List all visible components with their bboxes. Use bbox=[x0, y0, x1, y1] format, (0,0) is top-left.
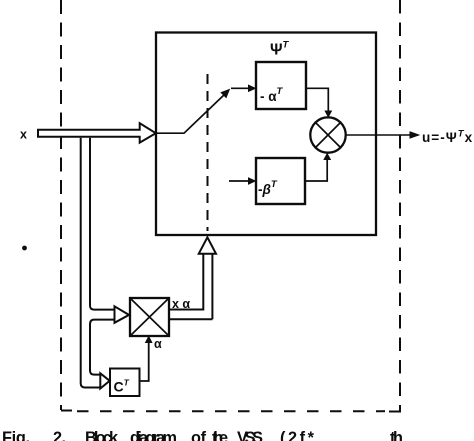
svg-text:x: x bbox=[20, 128, 27, 142]
label psi-transpose bbox=[270, 40, 290, 59]
inner dashed switching line bbox=[207, 74, 209, 231]
svg-text:- αT: - αT bbox=[260, 86, 284, 104]
arrowhead into multiplier (open) bbox=[115, 306, 130, 323]
arrowhead into C block (open) bbox=[100, 373, 109, 388]
node alpha label bbox=[154, 337, 162, 351]
wire C output alpha, up into multiplier bbox=[140, 337, 152, 381]
wire beta block to circle bbox=[305, 154, 330, 181]
stray dot mark bbox=[22, 246, 27, 251]
switch arm wire bbox=[156, 90, 229, 134]
svg-text:-βT: -βT bbox=[258, 179, 278, 197]
svg-text:Fig.2.BlockdiagramoftheVSS(2f*: Fig.2.BlockdiagramoftheVSS(2f*th bbox=[2, 429, 403, 441]
caption text (clipped at page bottom) bbox=[2, 429, 403, 441]
node x-alpha label bbox=[172, 297, 190, 311]
node x label bbox=[20, 128, 27, 142]
multiplier block (square with X) bbox=[130, 298, 169, 336]
svg-text:u=-ΨTx: u=-ΨTx bbox=[422, 128, 473, 145]
wire alpha block to circle bbox=[306, 88, 331, 117]
wire x branch down (hollow) bbox=[81, 138, 115, 388]
block minus-alpha-transpose bbox=[256, 62, 306, 109]
svg-text:α: α bbox=[154, 337, 162, 351]
wire into block alpha bbox=[231, 85, 255, 91]
svg-text:ΨT: ΨT bbox=[270, 40, 290, 59]
wire into block beta bbox=[229, 178, 255, 184]
block minus-beta-transpose bbox=[256, 158, 305, 204]
dashed boundary left bbox=[60, 0, 62, 410]
svg-text:CT: CT bbox=[114, 378, 130, 395]
wire output u bbox=[346, 132, 419, 138]
node output label u bbox=[422, 128, 473, 145]
summing multiplier circle bbox=[310, 117, 345, 152]
controller block (large box) bbox=[156, 33, 376, 236]
wire x input (hollow arrow) bbox=[38, 123, 156, 142]
wire multiplier to controller (hollow arrow up) bbox=[169, 237, 216, 319]
block C-transpose bbox=[110, 369, 140, 397]
dashed boundary right bbox=[399, 0, 401, 412]
dashed boundary bottom bbox=[61, 411, 401, 412]
